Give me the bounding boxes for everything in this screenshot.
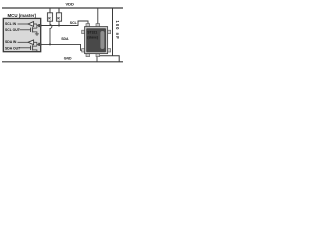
transistor Q1 (SCL open-drain) [20, 27, 37, 33]
MCU U1 (master) box [3, 18, 40, 51]
ground (Q1 source) [35, 34, 39, 35]
svg-text:SDA: SDA [61, 37, 69, 41]
IC U2 pin 7 (bottom left) [86, 53, 90, 56]
IC U2 pin 1 (top left) [86, 24, 90, 27]
buffer U1A (SCL input) [18, 22, 37, 27]
svg-text:100 nF: 100 nF [115, 21, 120, 40]
IC U2 pin 6 (right lower) [107, 49, 110, 52]
wire: VDD rail to slave VDD pin [97, 8, 99, 24]
resistor R2 (SCL pull-up) [56, 8, 61, 21]
IC U2 pin 4 (left lower, SDA) [82, 49, 85, 52]
wire: SDA pad node [37, 42, 41, 46]
wire: VDD rail [2, 7, 123, 9]
pin: MCU SCL pad [38, 24, 41, 27]
IC U2 body shine bar [100, 31, 104, 49]
buffer U1B (SDA input) [18, 40, 37, 45]
svg-text:SCL OUT: SCL OUT [5, 28, 21, 32]
IC U2 pin 2 (top right) [96, 24, 100, 27]
svg-text:MCU (master): MCU (master) [8, 13, 37, 18]
svg-text:GND: GND [64, 56, 72, 60]
IC U2 pin 8 (bottom right, GND) [96, 53, 100, 56]
IC U2 pin 5 (right upper) [107, 30, 110, 33]
IC U2 I2C slave package [85, 27, 108, 54]
resistor R1 (SDA pull-up) [47, 8, 52, 21]
wire: R2 lead to SCL net [58, 21, 60, 25]
svg-text:SDA OUT: SDA OUT [5, 46, 21, 50]
svg-text:VDD: VDD [66, 2, 75, 7]
ground (Q2 source) [35, 51, 39, 53]
wire: VDD branch to decoupling capacitor C1 [97, 8, 119, 62]
IC U2 pin 3 (left upper) [82, 30, 85, 33]
wire: R1 lead hopping over SCL net [50, 21, 52, 44]
svg-text:SCL: SCL [70, 21, 78, 25]
wire: SDA net [41, 44, 85, 50]
node: R2 to SCL junction [58, 25, 60, 27]
pin: MCU SDA pad [38, 43, 41, 46]
svg-text:SDA IN: SDA IN [5, 40, 17, 44]
wire: GND rail [2, 61, 123, 63]
svg-text:SCL IN: SCL IN [5, 22, 17, 26]
wire: SCL net [41, 21, 88, 26]
wire: slave GND pin to GND rail [96, 56, 98, 61]
wire: SCL pad node [37, 24, 41, 28]
svg-text:(slave): (slave) [87, 36, 98, 40]
IC U2 body [86, 28, 106, 52]
node: R1 to SDA junction [49, 43, 51, 45]
transistor Q2 (SDA open-drain) [20, 45, 37, 51]
svg-text:ST321: ST321 [87, 31, 97, 35]
